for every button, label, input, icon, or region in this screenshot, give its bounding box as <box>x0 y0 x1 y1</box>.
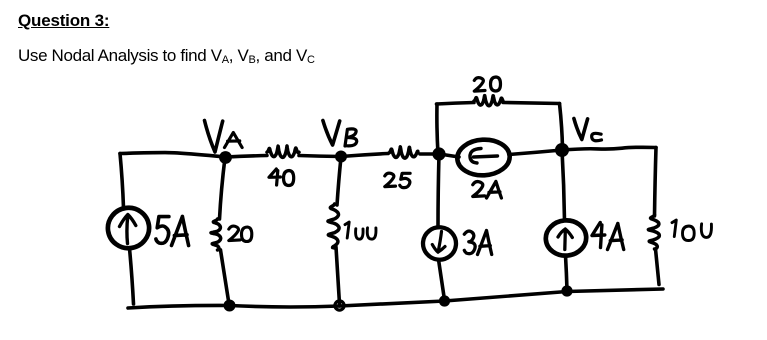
wire current source I2 to node C <box>509 150 562 155</box>
current source I2 ellipse <box>456 138 510 176</box>
wire top loop horizontal right of R4 <box>503 103 560 104</box>
node label VB <box>323 121 357 147</box>
resistor R4 value label 20 <box>474 77 500 91</box>
wire left vertical below I1 <box>130 249 134 305</box>
node C junction dot <box>555 143 569 157</box>
wire top loop left vertical <box>437 104 438 154</box>
wire resistor R3 to node D junction <box>420 152 439 156</box>
current source I3 down arrow <box>432 232 445 253</box>
resistor R6 100-ohm vertical scribble right branch <box>648 215 659 249</box>
wire resistor R1 to bottom rail <box>221 250 230 304</box>
bottom rail junction dot under I4 <box>561 285 572 296</box>
node D junction dot <box>432 147 445 160</box>
resistor R3 value label 25 <box>385 173 410 188</box>
node B junction dot <box>335 151 347 163</box>
wire node A vertical to resistor R1 <box>220 158 226 220</box>
wire node C vertical to current source I4 <box>562 150 565 221</box>
bottom rail junction dot under node A <box>224 300 236 312</box>
wire node B to resistor R3 <box>341 154 388 157</box>
resistor R1 value label 20 <box>229 226 252 241</box>
current source I2 left arrow <box>470 149 498 164</box>
wire top loop right vertical <box>560 104 563 149</box>
node label VA <box>205 121 243 153</box>
bottom rail junction open dot under node B <box>335 301 344 310</box>
resistor R2 value label 40 <box>269 169 294 186</box>
wire resistor R5 to bottom rail <box>336 247 340 304</box>
wire right branch vertical upper <box>655 148 657 217</box>
wire node B vertical to resistor R5 <box>337 157 341 205</box>
current source I4 circle <box>544 219 587 258</box>
wire current source I3 to bottom rail <box>439 260 445 301</box>
resistor R5 value label 100 <box>345 222 376 239</box>
node label VC <box>574 119 602 141</box>
wire bottom rail segment 1 <box>128 305 230 308</box>
wire top loop horizontal left of R4 <box>437 103 475 105</box>
current source I2 value label 2A <box>473 182 502 199</box>
bottom rail junction dot under I3 <box>439 295 450 306</box>
resistor R3 25-ohm scribble between B and D <box>389 147 418 158</box>
resistor R1 20-ohm vertical scribble under node A <box>211 219 221 250</box>
current source I4 up arrow <box>558 229 572 250</box>
heading Question 3: <box>18 11 109 31</box>
wire left vertical above I1 <box>120 154 124 208</box>
wire right branch vertical lower <box>656 249 660 285</box>
wire node C to right branch <box>562 147 656 150</box>
wire resistor R2 to node B <box>299 156 341 157</box>
resistor R6 value label 100 <box>672 220 711 241</box>
wire current source I4 to bottom rail <box>566 256 568 291</box>
problem statement <box>18 46 315 66</box>
current source I3 value label 3A <box>464 231 491 255</box>
wire node D vertical to current source I3 <box>438 154 439 228</box>
wire bottom rail segment 2 <box>230 306 340 307</box>
wire bottom rail segment 3 <box>340 301 445 306</box>
node A junction dot <box>219 151 232 164</box>
wire bottom rail segment 4 <box>445 292 568 302</box>
resistor R5 100-ohm vertical scribble under node B <box>328 204 339 248</box>
current source I4 value label 4A <box>592 223 624 250</box>
current source I3 circle <box>421 226 457 262</box>
resistor R2 40-ohm scribble between A and B <box>267 146 299 157</box>
resistor R4 20-ohm scribble in top loop <box>474 96 503 106</box>
wire node D to current source I2 <box>446 155 459 157</box>
wire node A to resistor R2 <box>225 156 267 158</box>
current source I1 up arrow <box>120 215 136 244</box>
wire bottom rail segment 5 <box>567 289 663 292</box>
wire top rail left: source I1 to node A <box>120 153 225 157</box>
current source I1 value label 5A <box>156 217 189 246</box>
current source I1 circle <box>105 205 151 251</box>
